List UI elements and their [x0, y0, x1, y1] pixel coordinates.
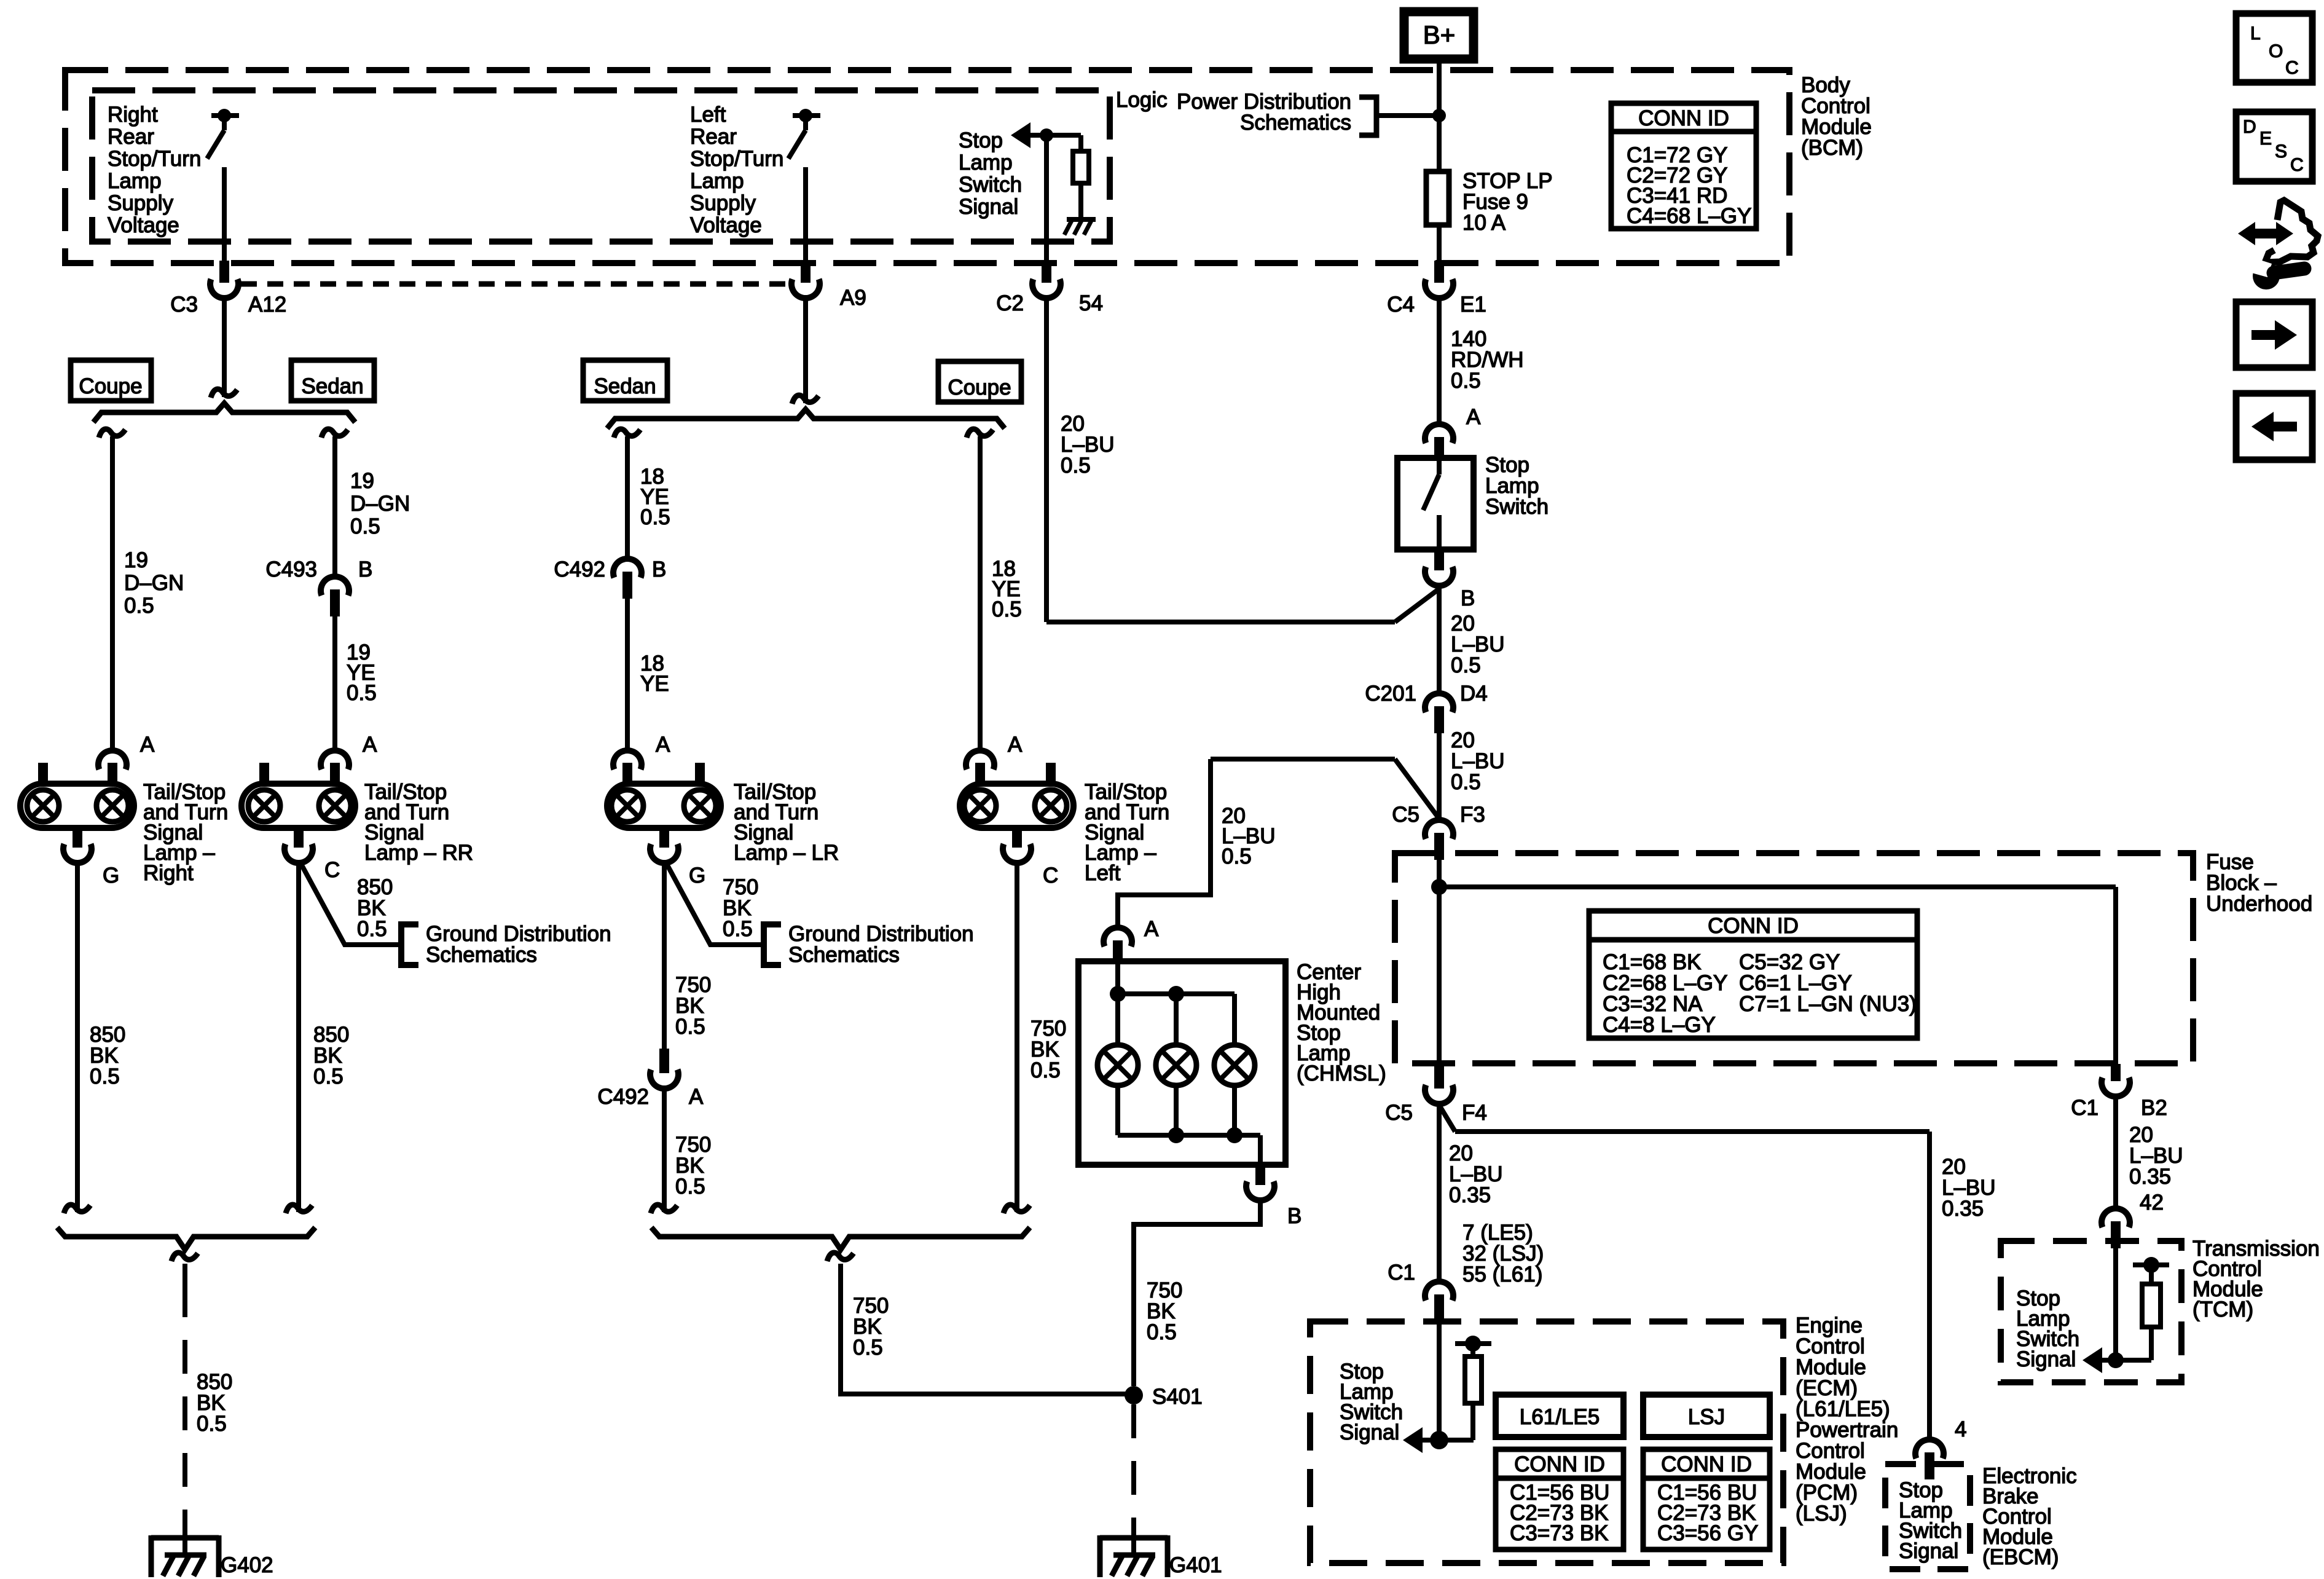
svg-text:C4: C4	[1387, 293, 1415, 317]
svg-text:(LSJ): (LSJ)	[1796, 1502, 1847, 1526]
svg-text:A: A	[140, 733, 155, 757]
svg-text:Supply: Supply	[690, 191, 756, 215]
svg-text:C492: C492	[554, 557, 605, 581]
svg-text:Stop: Stop	[959, 128, 1003, 152]
svg-text:A12: A12	[248, 293, 286, 317]
svg-text:Right: Right	[108, 103, 158, 127]
svg-text:Switch: Switch	[959, 173, 1022, 197]
svg-text:0.5: 0.5	[197, 1412, 227, 1436]
svg-text:A: A	[1466, 405, 1481, 429]
svg-text:Rear: Rear	[690, 125, 737, 149]
svg-text:0.5: 0.5	[640, 505, 670, 529]
svg-text:0.5: 0.5	[1451, 653, 1481, 677]
svg-text:C: C	[2290, 155, 2304, 175]
svg-text:Sedan: Sedan	[301, 374, 363, 398]
svg-text:Signal: Signal	[1340, 1420, 1399, 1444]
svg-text:0.5: 0.5	[675, 1175, 705, 1199]
svg-text:Voltage: Voltage	[690, 213, 762, 237]
svg-text:C3=73 BK: C3=73 BK	[1510, 1521, 1609, 1545]
svg-text:Right: Right	[143, 861, 194, 885]
svg-text:0.5: 0.5	[1222, 845, 1252, 868]
svg-text:C492: C492	[597, 1085, 649, 1109]
svg-text:0.5: 0.5	[1030, 1058, 1061, 1082]
svg-text:O: O	[2269, 41, 2283, 61]
svg-text:0.5: 0.5	[124, 594, 154, 618]
svg-text:Schematics: Schematics	[1240, 111, 1351, 135]
svg-text:CONN ID: CONN ID	[1708, 914, 1799, 938]
svg-text:Coupe: Coupe	[948, 376, 1011, 400]
svg-text:Lamp – LR: Lamp – LR	[734, 841, 839, 865]
svg-text:(BCM): (BCM)	[1801, 136, 1863, 160]
svg-text:54: 54	[1079, 291, 1103, 315]
svg-text:Lamp – RR: Lamp – RR	[364, 841, 473, 865]
svg-text:CONN ID: CONN ID	[1514, 1452, 1605, 1476]
svg-text:0.5: 0.5	[90, 1065, 120, 1089]
svg-text:Signal: Signal	[2016, 1347, 2076, 1371]
svg-text:B: B	[652, 557, 666, 581]
svg-text:(EBCM): (EBCM)	[1982, 1545, 2059, 1569]
svg-text:LSJ: LSJ	[1688, 1405, 1725, 1429]
svg-text:Lamp: Lamp	[959, 151, 1013, 175]
svg-text:S: S	[2275, 141, 2287, 162]
svg-text:A: A	[1008, 733, 1023, 757]
svg-text:0.5: 0.5	[347, 681, 377, 705]
svg-text:A: A	[689, 1085, 704, 1109]
svg-text:Underhood: Underhood	[2206, 892, 2312, 916]
svg-text:G401: G401	[1169, 1553, 1222, 1577]
svg-text:A: A	[1144, 917, 1159, 941]
svg-text:C5: C5	[1385, 1101, 1413, 1125]
svg-text:C2: C2	[996, 291, 1024, 315]
svg-text:YE: YE	[640, 672, 669, 696]
svg-text:(CHMSL): (CHMSL)	[1297, 1061, 1386, 1085]
svg-text:10 A: 10 A	[1462, 211, 1506, 235]
svg-text:0.5: 0.5	[357, 917, 387, 941]
svg-text:C201: C201	[1365, 682, 1416, 706]
svg-text:C: C	[1043, 864, 1058, 888]
svg-text:Switch: Switch	[1485, 495, 1549, 519]
svg-text:0.35: 0.35	[1449, 1183, 1491, 1207]
svg-text:G: G	[689, 864, 705, 888]
svg-text:C: C	[2285, 58, 2299, 78]
svg-text:CONN ID: CONN ID	[1638, 106, 1729, 130]
svg-text:B: B	[1461, 586, 1475, 610]
svg-text:C3: C3	[170, 293, 198, 317]
svg-text:Left: Left	[690, 103, 726, 127]
svg-text:0.35: 0.35	[1942, 1197, 1984, 1221]
svg-text:C5: C5	[1392, 803, 1419, 827]
svg-text:C4=8 L–GY: C4=8 L–GY	[1603, 1013, 1716, 1037]
svg-text:C1: C1	[1388, 1261, 1415, 1285]
svg-text:0.5: 0.5	[1451, 369, 1481, 393]
svg-text:C4=68 L–GY: C4=68 L–GY	[1627, 204, 1751, 228]
svg-text:C1: C1	[2071, 1096, 2098, 1120]
svg-text:D–GN: D–GN	[124, 571, 184, 595]
svg-text:0.5: 0.5	[853, 1336, 883, 1360]
svg-text:4: 4	[1955, 1417, 1966, 1441]
svg-text:C7=1 L–GN (NU3): C7=1 L–GN (NU3)	[1739, 992, 1917, 1016]
svg-text:Voltage: Voltage	[108, 213, 179, 237]
svg-text:C3=56 GY: C3=56 GY	[1657, 1521, 1758, 1545]
svg-text:19: 19	[124, 548, 148, 572]
svg-text:Signal: Signal	[959, 195, 1018, 219]
svg-text:55 (L61): 55 (L61)	[1462, 1262, 1542, 1286]
svg-text:E1: E1	[1460, 293, 1486, 317]
svg-text:CONN ID: CONN ID	[1661, 1452, 1752, 1476]
svg-text:B: B	[1287, 1204, 1301, 1228]
svg-text:Left: Left	[1085, 861, 1121, 885]
svg-text:E: E	[2259, 128, 2272, 149]
svg-text:Rear: Rear	[108, 125, 154, 149]
svg-text:Stop/Turn: Stop/Turn	[690, 147, 783, 171]
svg-text:A: A	[656, 733, 670, 757]
svg-text:Lamp: Lamp	[108, 169, 162, 193]
svg-text:A9: A9	[840, 286, 866, 310]
svg-text:C493: C493	[265, 557, 317, 581]
svg-text:Stop/Turn: Stop/Turn	[108, 147, 201, 171]
svg-text:G: G	[103, 864, 119, 888]
svg-text:B2: B2	[2141, 1096, 2167, 1120]
svg-text:Logic: Logic	[1116, 88, 1168, 112]
svg-text:D: D	[2243, 117, 2256, 137]
svg-text:Schematics: Schematics	[426, 943, 537, 967]
svg-text:Schematics: Schematics	[788, 943, 900, 967]
svg-text:F4: F4	[1462, 1101, 1487, 1125]
svg-text:B+: B+	[1423, 20, 1456, 49]
svg-text:C: C	[324, 858, 340, 882]
svg-text:0.35: 0.35	[2129, 1165, 2171, 1189]
svg-text:L61/LE5: L61/LE5	[1520, 1405, 1600, 1429]
svg-text:0.5: 0.5	[1147, 1320, 1177, 1344]
svg-text:Signal: Signal	[1899, 1539, 1958, 1563]
svg-text:Coupe: Coupe	[79, 374, 142, 398]
svg-text:0.5: 0.5	[1061, 454, 1091, 478]
svg-text:S401: S401	[1152, 1385, 1203, 1409]
svg-text:D4: D4	[1460, 682, 1488, 706]
svg-text:F3: F3	[1460, 803, 1485, 827]
svg-text:0.5: 0.5	[350, 514, 380, 538]
svg-text:L: L	[2250, 23, 2261, 44]
svg-text:A: A	[363, 733, 377, 757]
svg-text:0.5: 0.5	[313, 1065, 343, 1089]
svg-text:(TCM): (TCM)	[2192, 1297, 2253, 1321]
svg-text:Lamp: Lamp	[690, 169, 744, 193]
svg-text:42: 42	[2140, 1191, 2164, 1215]
svg-text:0.5: 0.5	[1451, 770, 1481, 794]
svg-text:B: B	[358, 557, 372, 581]
svg-text:0.5: 0.5	[675, 1015, 705, 1039]
svg-text:Supply: Supply	[108, 191, 174, 215]
svg-text:G402: G402	[221, 1553, 273, 1577]
svg-text:Sedan: Sedan	[594, 374, 656, 398]
svg-text:D–GN: D–GN	[350, 492, 410, 516]
svg-text:19: 19	[350, 469, 374, 493]
svg-text:0.5: 0.5	[723, 917, 753, 941]
svg-text:0.5: 0.5	[992, 597, 1022, 621]
